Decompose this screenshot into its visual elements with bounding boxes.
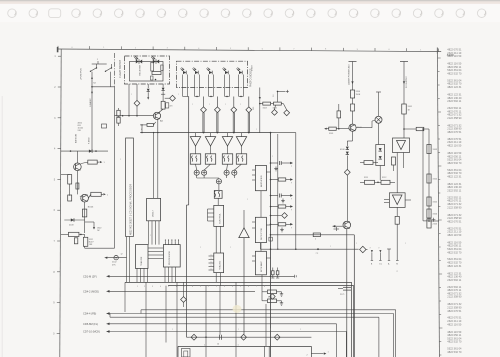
svg-text:5: 5: [379, 247, 381, 248]
svg-text:2: 2: [209, 104, 210, 106]
svg-text:7: 7: [293, 49, 294, 51]
svg-text:CLAMP SWITCH: CLAMP SWITCH: [119, 59, 122, 78]
svg-text:2: 2: [200, 247, 201, 249]
svg-text:2: 2: [330, 246, 331, 248]
svg-text:TDA5708: TDA5708: [140, 256, 143, 266]
svg-text:1: 1: [420, 49, 421, 51]
svg-text:BITW AMP: BITW AMP: [260, 261, 263, 272]
svg-text:1: 1: [211, 258, 212, 260]
svg-text:S-BASIC: S-BASIC: [89, 98, 92, 107]
svg-text:4: 4: [198, 48, 199, 50]
svg-text:2: 2: [150, 235, 151, 237]
svg-text:ASK/DOM: ASK/DOM: [75, 133, 78, 143]
svg-text:7: 7: [256, 286, 257, 288]
svg-text:CD4-4 (FB): CD4-4 (FB): [83, 312, 96, 316]
svg-text:2: 2: [192, 104, 193, 106]
svg-text:14: 14: [217, 344, 219, 346]
svg-text:CD1-M (2F): CD1-M (2F): [83, 274, 97, 278]
svg-text:470: 470: [169, 106, 172, 108]
svg-text:4822 532 70: 4822 532 70: [447, 250, 462, 254]
svg-text:2122 358 90: 2122 358 90: [447, 116, 462, 120]
svg-text:TDA1302: TDA1302: [219, 260, 222, 270]
svg-text:2: 2: [149, 91, 150, 93]
svg-text:4822 070 51: 4822 070 51: [447, 219, 462, 223]
svg-text:CD7-10 (MCK): CD7-10 (MCK): [83, 330, 100, 334]
svg-text:2: 2: [172, 329, 173, 331]
svg-text:6: 6: [262, 48, 263, 50]
svg-text:4822 116 50: 4822 116 50: [447, 144, 462, 148]
svg-text:2: 2: [225, 104, 226, 106]
svg-text:5: 5: [240, 286, 241, 288]
svg-text:2: 2: [315, 239, 316, 241]
svg-text:4822 532 70: 4822 532 70: [447, 72, 462, 76]
svg-text:300: 300: [253, 107, 255, 110]
svg-text:1: 1: [211, 265, 212, 267]
svg-text:1: 1: [211, 254, 212, 256]
svg-text:9: 9: [357, 49, 358, 51]
svg-text:2: 2: [356, 243, 357, 245]
svg-text:RECEIVER: RECEIVER: [140, 64, 142, 75]
svg-text:6: 6: [248, 286, 249, 288]
svg-text:1: 1: [103, 47, 104, 49]
svg-text:4822 070 51: 4822 070 51: [447, 309, 462, 313]
svg-text:3: 3: [224, 286, 225, 288]
svg-text:2: 2: [178, 94, 179, 96]
svg-text:2322 592 11: 2322 592 11: [447, 99, 462, 103]
svg-text:5: 5: [370, 247, 372, 248]
svg-text:8: 8: [192, 286, 193, 288]
svg-text:3105: 3105: [329, 133, 333, 135]
svg-text:3103: 3103: [263, 107, 267, 109]
svg-text:2: 2: [307, 355, 308, 357]
svg-text:2: 2: [247, 199, 248, 201]
svg-text:5: 5: [230, 48, 231, 50]
svg-text:1: 1: [211, 261, 212, 263]
svg-text:8: 8: [264, 286, 265, 288]
svg-text:DETECTOR: DETECTOR: [261, 228, 263, 240]
svg-text:4822 532 70: 4822 532 70: [447, 340, 462, 344]
svg-text:0: 0: [72, 47, 73, 49]
svg-text:2: 2: [131, 94, 132, 96]
svg-text:4822 122 31: 4822 122 31: [447, 85, 462, 89]
svg-text:9: 9: [200, 286, 201, 288]
svg-text:4822 070 51: 4822 070 51: [447, 130, 462, 134]
svg-text:1: 1: [208, 286, 209, 288]
svg-text:8: 8: [325, 49, 326, 51]
svg-text:2: 2: [120, 159, 121, 161]
svg-text:4-W37: 4-W37: [252, 64, 254, 71]
svg-text:7: 7: [184, 286, 185, 288]
svg-text:1: 1: [211, 268, 212, 270]
svg-text:AMPLIFIER: AMPLIFIER: [260, 175, 263, 187]
svg-text:CD5-8M (FL): CD5-8M (FL): [83, 322, 98, 326]
svg-text:150E: 150E: [356, 94, 361, 96]
svg-text:4822 116 50: 4822 116 50: [447, 322, 462, 326]
svg-text:LASER POWER ADJ: LASER POWER ADJ: [348, 64, 351, 85]
svg-text:CD4-2 (MOD): CD4-2 (MOD): [83, 289, 99, 293]
svg-text:2122 358 90: 2122 358 90: [447, 205, 462, 209]
svg-text:7 2: 7 2: [316, 253, 319, 255]
svg-text:12: 12: [121, 254, 123, 256]
svg-text:LM317: LM317: [153, 210, 155, 217]
svg-text:4822 532 70: 4822 532 70: [447, 161, 462, 165]
svg-text:CONTROL: CONTROL: [220, 213, 222, 224]
svg-text:4: 4: [232, 286, 233, 288]
svg-text:2: 2: [256, 129, 257, 131]
svg-text:2: 2: [216, 286, 217, 288]
svg-text:1: 1: [137, 286, 138, 288]
svg-text:PROCESSOR: PROCESSOR: [169, 251, 171, 265]
svg-text:BU26: BU26: [88, 207, 94, 209]
svg-text:2.6: 2.6: [273, 95, 275, 98]
svg-text:2: 2: [144, 286, 145, 288]
svg-text:4822 902 30527 1-CD SIGNAL PRO: 4822 902 30527 1-CD SIGNAL PROCESSOR: [130, 184, 133, 235]
svg-text:2322 592 11: 2322 592 11: [447, 189, 462, 193]
svg-text:1K8: 1K8: [89, 244, 92, 246]
svg-text:2: 2: [300, 329, 301, 331]
svg-text:2122 358 90: 2122 358 90: [447, 295, 462, 299]
svg-text:2: 2: [272, 156, 273, 158]
svg-text:3: 3: [152, 286, 153, 288]
svg-text:4822 116 50: 4822 116 50: [447, 54, 462, 58]
svg-text:2: 2: [238, 329, 239, 331]
svg-text:F-MOD: F-MOD: [88, 137, 90, 144]
svg-text:4: 4: [160, 286, 161, 288]
svg-text:0: 0: [389, 49, 390, 51]
svg-text:2: 2: [240, 104, 241, 106]
svg-text:2: 2: [270, 329, 271, 331]
svg-text:8: 8: [141, 129, 142, 131]
svg-text:5V SUPPLY: 5V SUPPLY: [406, 76, 408, 88]
svg-text:4822 532 70: 4822 532 70: [447, 350, 462, 354]
svg-text:2322 592 11: 2322 592 11: [447, 278, 462, 282]
svg-text:3: 3: [167, 48, 168, 50]
svg-text:+POW POS: +POW POS: [81, 68, 83, 80]
svg-text:4822 116 50: 4822 116 50: [447, 233, 462, 237]
svg-text:4822 122 31: 4822 122 31: [447, 174, 462, 178]
svg-text:4822 122 31: 4822 122 31: [447, 264, 462, 268]
svg-text:2: 2: [230, 247, 231, 249]
svg-text:5: 5: [168, 286, 169, 288]
svg-text:2: 2: [135, 47, 136, 49]
svg-text:2: 2: [405, 243, 406, 245]
